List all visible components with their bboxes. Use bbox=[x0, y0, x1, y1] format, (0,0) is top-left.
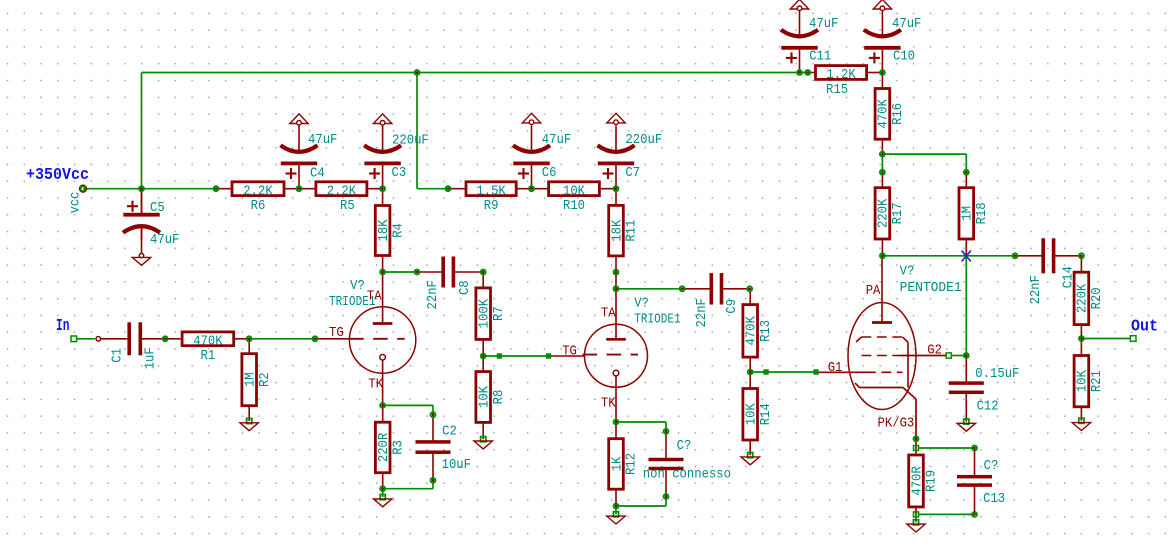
svg-text:C10: C10 bbox=[893, 50, 915, 65]
pin-end circle C1 bbox=[96, 337, 101, 342]
svg-text:22nF: 22nF bbox=[695, 298, 710, 327]
pin name TA triode2 bbox=[601, 307, 616, 322]
no-connect marker X bbox=[962, 251, 971, 262]
capacitor C1 bbox=[100, 322, 165, 355]
wire output bus bbox=[882, 255, 1015, 257]
wire grid1 feed bbox=[249, 338, 315, 340]
resistor R7 bbox=[476, 272, 507, 356]
svg-text:10K: 10K bbox=[478, 385, 493, 408]
ground R21 bbox=[1072, 418, 1090, 430]
svg-text:R13: R13 bbox=[759, 320, 774, 342]
svg-text:C12: C12 bbox=[977, 400, 999, 415]
label C9 22nF bbox=[695, 298, 710, 327]
resistor R5 bbox=[299, 182, 383, 214]
svg-text:R11: R11 bbox=[625, 220, 640, 242]
svg-text:10K: 10K bbox=[745, 403, 760, 426]
svg-text:C6: C6 bbox=[542, 166, 557, 181]
svg-text:TK: TK bbox=[368, 378, 383, 393]
svg-text:470K: 470K bbox=[877, 99, 892, 129]
label TRIODE1 second bbox=[634, 313, 681, 328]
value 47uF C11 bbox=[809, 17, 838, 32]
label C14 22nF bbox=[1029, 275, 1044, 304]
wire stage2 grid feed bbox=[483, 355, 548, 357]
power arrow above C7 bbox=[607, 113, 625, 124]
ground R8 bbox=[474, 437, 492, 449]
value 47uF C10 bbox=[892, 17, 921, 32]
svg-text:C3: C3 bbox=[392, 166, 407, 181]
pin triode1 grid bbox=[315, 338, 350, 340]
resistor R20 bbox=[1074, 256, 1105, 339]
svg-text:C8: C8 bbox=[458, 280, 473, 295]
svg-text:220R: 220R bbox=[377, 433, 392, 462]
resistor R9 bbox=[448, 182, 532, 214]
svg-text:non connesso: non connesso bbox=[643, 468, 731, 483]
pin name G2 bbox=[927, 343, 942, 358]
wire top supply bus bbox=[142, 72, 800, 74]
svg-text:C1: C1 bbox=[111, 348, 126, 363]
label C14 bbox=[1062, 266, 1077, 288]
resistor R3 bbox=[375, 405, 406, 488]
svg-text:V?: V? bbox=[900, 265, 915, 280]
capacitor C8 bbox=[417, 257, 483, 288]
resistor R16 bbox=[875, 73, 906, 155]
wire vcc rail bbox=[83, 188, 216, 190]
pin triode2 grid bbox=[549, 355, 586, 357]
ground C12 bbox=[957, 419, 975, 431]
svg-text:R7: R7 bbox=[492, 306, 507, 321]
svg-text:R6: R6 bbox=[251, 199, 266, 214]
label C8 22nF bbox=[426, 280, 441, 309]
resistor R8 bbox=[476, 356, 507, 439]
svg-text:PK/G3: PK/G3 bbox=[878, 416, 915, 432]
power port vcc bbox=[68, 185, 86, 213]
value 220uF C7 bbox=[625, 133, 662, 148]
svg-text:220uF: 220uF bbox=[625, 133, 662, 148]
svg-text:220K: 220K bbox=[877, 198, 892, 228]
resistor R11 bbox=[609, 189, 640, 289]
svg-text:R1: R1 bbox=[201, 349, 216, 364]
capacitor C12 bbox=[949, 356, 984, 422]
svg-text:470K: 470K bbox=[193, 334, 223, 349]
label C3 bbox=[392, 166, 407, 181]
value 47uF C6 bbox=[542, 133, 571, 148]
capacitor C11 bbox=[781, 10, 818, 73]
resistor R4 bbox=[375, 189, 406, 272]
svg-text:470K: 470K bbox=[745, 316, 760, 346]
capacitor C3 bbox=[364, 125, 401, 188]
svg-text:V?: V? bbox=[350, 279, 365, 294]
wire C2 bottom bbox=[432, 480, 434, 488]
svg-text:22nF: 22nF bbox=[426, 280, 441, 309]
label V? triode2 bbox=[634, 297, 649, 312]
svg-text:V?: V? bbox=[634, 297, 649, 312]
svg-text:47uF: 47uF bbox=[892, 17, 921, 32]
resistor R15 bbox=[808, 66, 883, 98]
label +350Vcc bbox=[26, 165, 89, 184]
capacitor C10 bbox=[864, 10, 901, 73]
svg-text:C11: C11 bbox=[809, 50, 831, 65]
capacitor C4 bbox=[281, 125, 318, 188]
svg-text:G1: G1 bbox=[828, 361, 843, 376]
svg-text:In: In bbox=[56, 316, 70, 335]
wire C-nc bottom bbox=[665, 497, 667, 507]
wire R19 to gnd bbox=[915, 514, 917, 522]
resistor R2 bbox=[242, 339, 273, 421]
wire-end square G2 bbox=[946, 353, 951, 358]
pin name TK triode2 bbox=[601, 397, 616, 412]
svg-text:18K: 18K bbox=[377, 219, 392, 242]
svg-text:1.5K: 1.5K bbox=[476, 184, 506, 199]
wire triode1 cathode bbox=[383, 404, 433, 406]
svg-text:TG: TG bbox=[562, 345, 577, 360]
svg-text:47uF: 47uF bbox=[150, 233, 179, 248]
svg-text:1uF: 1uF bbox=[144, 347, 159, 369]
svg-text:C5: C5 bbox=[150, 201, 165, 216]
wire C2 return bbox=[383, 488, 433, 490]
value non connesso bbox=[643, 468, 731, 483]
wire-end square R19 top bbox=[914, 446, 919, 451]
label C8 bbox=[458, 280, 473, 295]
svg-text:C13: C13 bbox=[983, 492, 1005, 507]
svg-text:47uF: 47uF bbox=[542, 133, 571, 148]
svg-text:R18: R18 bbox=[975, 202, 990, 224]
pin name G1 bbox=[828, 361, 843, 376]
capacitor C9 bbox=[682, 273, 750, 305]
wire R12 to gnd bbox=[615, 506, 617, 514]
svg-text:R16: R16 bbox=[891, 103, 906, 125]
svg-text:PA: PA bbox=[866, 284, 881, 299]
value 1uF C1 bbox=[144, 347, 159, 369]
value 10uF C2 bbox=[442, 458, 471, 473]
label C1 bbox=[111, 348, 126, 363]
wire-end markers bbox=[497, 353, 819, 374]
wire In bbox=[77, 338, 95, 340]
pin name TG triode2 bbox=[562, 345, 577, 360]
capacitor C14 bbox=[1015, 238, 1081, 273]
label C11 bbox=[809, 50, 831, 65]
svg-text:R14: R14 bbox=[759, 403, 774, 425]
wire pentode grid feed bbox=[750, 371, 816, 373]
capacitor C5 bbox=[123, 189, 160, 253]
wire triode2 cathode bbox=[616, 421, 666, 423]
wire vcc riser bbox=[141, 73, 143, 189]
power arrow above C11 bbox=[790, 0, 808, 11]
svg-text:10K: 10K bbox=[1076, 370, 1091, 393]
ground R3 bbox=[374, 495, 392, 507]
triode V? TRIODE1 (second) bbox=[583, 289, 648, 422]
wire down to C-nc bbox=[665, 422, 667, 431]
svg-text:1M: 1M bbox=[243, 372, 258, 387]
wire stage1 anode node bbox=[383, 271, 417, 273]
svg-text:18K: 18K bbox=[610, 219, 625, 242]
svg-text:2.2K: 2.2K bbox=[243, 184, 273, 199]
svg-text:TA: TA bbox=[367, 290, 382, 305]
svg-text:C4: C4 bbox=[310, 167, 325, 182]
ground R2 bbox=[240, 418, 258, 430]
svg-text:R17: R17 bbox=[891, 202, 906, 224]
capacitor C2 bbox=[416, 415, 451, 481]
label C5 bbox=[150, 201, 165, 216]
pin name PK/G3 bbox=[878, 416, 915, 432]
ground R14 bbox=[741, 453, 759, 465]
wire Out node bbox=[1081, 338, 1130, 340]
resistor R19 bbox=[909, 439, 940, 515]
resistor R21 bbox=[1074, 339, 1105, 421]
svg-text:R3: R3 bbox=[391, 440, 406, 455]
svg-text:R10: R10 bbox=[563, 199, 585, 214]
power arrow above C10 bbox=[873, 0, 891, 11]
label V? triode1 bbox=[350, 279, 365, 294]
svg-text:2.2K: 2.2K bbox=[327, 184, 357, 199]
label C10 bbox=[893, 50, 915, 65]
ground R12 bbox=[607, 512, 625, 524]
svg-text:220uF: 220uF bbox=[392, 134, 429, 149]
wire cathode3 to C13 bbox=[919, 447, 975, 449]
wire to R9 bbox=[417, 188, 448, 190]
svg-text:TRIODE1: TRIODE1 bbox=[634, 313, 681, 328]
svg-text:10K: 10K bbox=[563, 184, 586, 199]
svg-text:R20: R20 bbox=[1090, 287, 1105, 309]
label C9 bbox=[725, 299, 740, 314]
svg-text:C?: C? bbox=[984, 459, 999, 474]
wire stage2 supply drop bbox=[416, 73, 418, 189]
svg-text:47uF: 47uF bbox=[308, 133, 337, 148]
svg-text:0.15uF: 0.15uF bbox=[975, 367, 1019, 382]
svg-text:TA: TA bbox=[601, 307, 616, 322]
svg-text:R5: R5 bbox=[340, 199, 355, 214]
pin C5 top bbox=[141, 189, 143, 213]
wire C13 bottom bbox=[919, 513, 975, 515]
svg-text:R21: R21 bbox=[1090, 370, 1105, 392]
label C13 bbox=[983, 492, 1005, 507]
port Out square bbox=[1130, 336, 1136, 342]
triode V? TRIODE1 (first) bbox=[349, 272, 416, 405]
capacitor C7 bbox=[598, 125, 635, 188]
pin name TK triode1 bbox=[368, 378, 383, 393]
svg-text:G2: G2 bbox=[927, 343, 942, 358]
resistor R13 bbox=[743, 289, 774, 372]
pin name TG triode1 bbox=[329, 326, 344, 341]
resistor R18 bbox=[959, 172, 990, 256]
value 220uF C3 bbox=[392, 134, 429, 149]
value 47uF C4 bbox=[308, 133, 337, 148]
label Out bbox=[1131, 317, 1158, 336]
svg-text:PENTODE1: PENTODE1 bbox=[900, 281, 962, 296]
wire stage2 anode node bbox=[616, 288, 682, 290]
label V? pentode bbox=[900, 265, 915, 280]
label TRIODE1 first bbox=[329, 295, 376, 310]
svg-text:+350Vcc: +350Vcc bbox=[26, 165, 89, 184]
label C4 bbox=[310, 167, 325, 182]
label C? non connesso ref bbox=[677, 439, 692, 454]
port In square bbox=[71, 336, 77, 342]
capacitor C-nc bbox=[649, 431, 684, 496]
label PENTODE1 bbox=[900, 281, 962, 296]
wire down to C2 bbox=[432, 405, 434, 414]
power arrow above C4 bbox=[290, 114, 308, 125]
wire R16 bottom node bbox=[882, 153, 966, 155]
resistor R12 bbox=[609, 422, 640, 506]
resistor R6 bbox=[216, 182, 299, 214]
power arrow above C6 bbox=[522, 113, 540, 124]
wire C-nc return bbox=[616, 505, 666, 507]
label C6 bbox=[542, 166, 557, 181]
resistor R14 bbox=[743, 372, 774, 455]
svg-text:47uF: 47uF bbox=[809, 17, 838, 32]
label C12 value bbox=[975, 367, 1019, 382]
pin name TA triode1 bbox=[367, 290, 382, 305]
svg-text:10uF: 10uF bbox=[442, 458, 471, 473]
wire G2 to screen node bbox=[952, 355, 967, 357]
svg-text:Out: Out bbox=[1131, 317, 1158, 336]
ground R19 bbox=[907, 520, 925, 532]
svg-text:TG: TG bbox=[329, 326, 344, 341]
wire R15 stub bbox=[800, 72, 808, 74]
svg-text:22nF: 22nF bbox=[1029, 275, 1044, 304]
svg-text:vcc: vcc bbox=[68, 192, 83, 214]
svg-text:1.2K: 1.2K bbox=[826, 68, 856, 83]
svg-text:1M: 1M bbox=[961, 206, 976, 221]
wire screen drop bbox=[965, 256, 967, 356]
wire to R18 bbox=[965, 154, 967, 172]
svg-text:1K: 1K bbox=[610, 456, 625, 471]
label In bbox=[56, 316, 70, 335]
value 47uF C5 bbox=[150, 233, 179, 248]
svg-text:C14: C14 bbox=[1062, 266, 1077, 288]
svg-text:C9: C9 bbox=[725, 299, 740, 314]
wire R3 to gnd bbox=[382, 489, 384, 497]
svg-text:C2: C2 bbox=[442, 425, 457, 440]
svg-text:TK: TK bbox=[601, 397, 616, 412]
resistor R1 bbox=[165, 332, 249, 364]
svg-text:100K: 100K bbox=[478, 298, 493, 328]
label C7 bbox=[625, 166, 640, 181]
svg-text:R15: R15 bbox=[826, 83, 848, 98]
svg-text:C?: C? bbox=[677, 439, 692, 454]
svg-text:R12: R12 bbox=[625, 453, 640, 475]
svg-text:R8: R8 bbox=[492, 390, 507, 405]
resistor R17 bbox=[875, 172, 906, 256]
svg-text:470R: 470R bbox=[910, 466, 925, 495]
svg-text:R19: R19 bbox=[925, 470, 940, 492]
label C2 bbox=[442, 425, 457, 440]
capacitor C6 bbox=[513, 125, 550, 188]
wire-end square R19 bottom bbox=[914, 512, 919, 517]
pin name PA bbox=[866, 284, 881, 299]
wire R16 to R17 bbox=[881, 154, 883, 172]
label C13 ref bbox=[984, 459, 999, 474]
svg-text:R4: R4 bbox=[391, 223, 406, 238]
pentode V? PENTODE1 bbox=[816, 256, 947, 439]
svg-text:C7: C7 bbox=[625, 166, 640, 181]
svg-text:R9: R9 bbox=[484, 199, 499, 214]
power arrow above C3 bbox=[373, 114, 391, 125]
label C12 bbox=[977, 400, 999, 415]
svg-text:220K: 220K bbox=[1076, 283, 1091, 313]
capacitor C13 bbox=[957, 448, 992, 514]
resistor R10 bbox=[532, 182, 617, 214]
ground C5 bbox=[132, 253, 150, 265]
svg-text:R2: R2 bbox=[258, 372, 273, 387]
